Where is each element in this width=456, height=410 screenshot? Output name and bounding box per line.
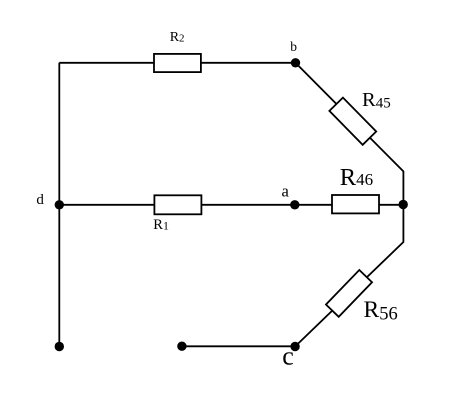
- svg-text:d: d: [36, 192, 44, 208]
- svg-text:a: a: [282, 182, 290, 201]
- svg-text:b: b: [290, 39, 297, 54]
- svg-text:R2: R2: [170, 30, 185, 45]
- svg-text:R1: R1: [153, 217, 169, 233]
- svg-text:c: c: [282, 342, 294, 371]
